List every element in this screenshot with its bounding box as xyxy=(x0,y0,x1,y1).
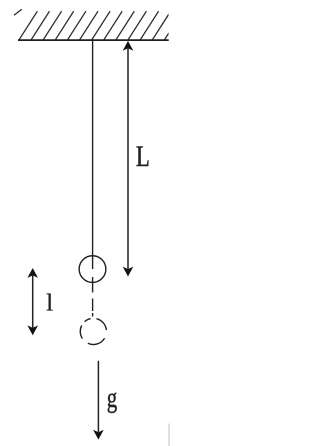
ceiling hatching xyxy=(14,9,183,40)
ceiling line xyxy=(18,39,169,41)
faint right edge mark xyxy=(168,424,170,446)
L measurement arrow (double headed) xyxy=(123,41,134,277)
svg-text:g: g xyxy=(107,382,118,414)
l measurement arrow (double headed) xyxy=(27,268,38,335)
solid bob circle xyxy=(79,256,106,283)
dashed connector below bob xyxy=(92,277,94,317)
svg-text:l: l xyxy=(46,290,53,317)
svg-text:L: L xyxy=(136,140,150,172)
string (pendulum rod) xyxy=(92,41,94,269)
g gravity arrow xyxy=(93,361,104,440)
dashed circle xyxy=(80,319,106,345)
